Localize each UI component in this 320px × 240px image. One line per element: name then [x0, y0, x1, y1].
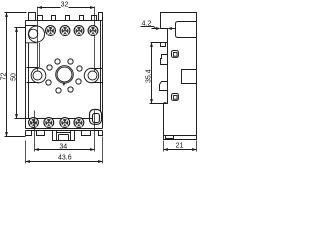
svg-text:34: 34: [59, 143, 67, 150]
svg-text:21: 21: [176, 143, 184, 150]
svg-text:72: 72: [1, 73, 8, 81]
svg-text:32: 32: [61, 2, 69, 9]
svg-text:50: 50: [11, 73, 18, 81]
svg-text:35.4: 35.4: [146, 69, 153, 83]
svg-text:43.6: 43.6: [58, 154, 72, 161]
svg-text:4.2: 4.2: [142, 21, 152, 28]
